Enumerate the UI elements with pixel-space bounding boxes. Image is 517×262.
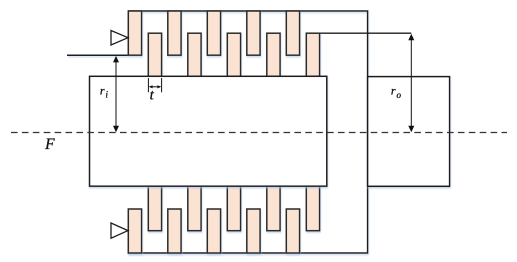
svg-text:F: F	[44, 136, 55, 153]
